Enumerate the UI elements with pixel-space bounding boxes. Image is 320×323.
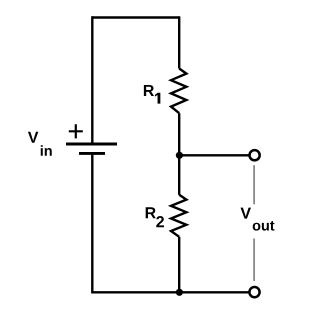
label R2 "2" subscript	[156, 216, 164, 227]
label R2 "R"	[146, 207, 156, 218]
terminal top output	[250, 150, 260, 160]
battery V_in short plate (-)	[79, 152, 105, 155]
label R1 "1" subscript	[155, 93, 160, 104]
label V_out "out" subscript	[253, 221, 275, 231]
wire R1 to node A	[178, 113, 180, 155]
wire R2 to node B	[178, 237, 180, 292]
V_out leader line upper	[253, 165, 255, 204]
label V_in "in" subscript	[41, 145, 52, 156]
wire right upper (top rail to R1)	[178, 16, 180, 68]
wire top rail	[92, 16, 179, 18]
node A junction dot	[176, 152, 183, 159]
terminal bottom output	[249, 287, 259, 297]
battery + polarity mark	[69, 124, 83, 138]
wire left upper (battery + lead)	[91, 16, 93, 143]
V_out leader line lower	[253, 239, 255, 282]
resistor R1	[171, 69, 186, 114]
wire left lower (battery - to bottom rail)	[91, 153, 93, 293]
wire bottom rail	[92, 291, 249, 293]
label V_out "V"	[241, 208, 251, 219]
wire node A to top output terminal	[179, 154, 249, 156]
resistor R2	[171, 195, 186, 237]
wire node A to R2	[178, 155, 180, 195]
battery V_in long plate (+)	[66, 143, 117, 146]
label V_in "V"	[28, 132, 38, 143]
label R1 "R"	[144, 85, 154, 96]
node B junction dot	[176, 289, 183, 296]
